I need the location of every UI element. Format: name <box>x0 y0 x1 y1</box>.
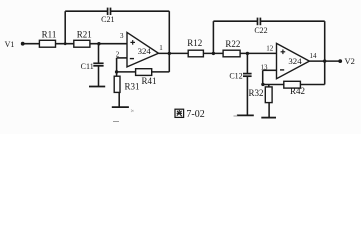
svg-text:R21: R21 <box>77 30 92 40</box>
wire C22 top right segment <box>261 20 325 22</box>
node junction R12-R22-C22 <box>212 52 215 55</box>
wire output2 vertical C22-R42 <box>324 21 326 84</box>
wire C12 lower leg <box>246 76 248 115</box>
svg-text:1: 1 <box>159 44 163 52</box>
wire C21 top left segment <box>65 10 107 12</box>
wire op2 output <box>309 60 340 62</box>
svg-text:C21: C21 <box>101 15 114 24</box>
svg-text:R12: R12 <box>187 38 202 48</box>
wire C22 left leg <box>212 21 214 53</box>
node junction R32 top <box>261 83 264 86</box>
resistor R31 <box>114 76 120 92</box>
capacitor C11 plates <box>93 63 103 66</box>
wire op1 output <box>159 52 189 54</box>
svg-text:12: 12 <box>266 45 274 53</box>
op-amp U2 minus sign <box>280 69 284 71</box>
svg-text:R32: R32 <box>248 88 263 98</box>
wire C22 top left segment <box>213 20 257 22</box>
svg-text:13: 13 <box>261 63 269 71</box>
wire R32 top stub <box>268 85 270 87</box>
op-amp U1 minus sign <box>130 58 134 60</box>
wire C11 upper leg <box>98 44 100 63</box>
faint scan artifact left of caption <box>131 110 134 113</box>
op-amp U2 plus sign <box>281 50 286 55</box>
capacitor C21 plates <box>108 8 111 15</box>
resistor R11 <box>39 40 55 47</box>
faint scan artifact dash below R31 ground <box>113 121 119 123</box>
wire pin13 vertical <box>262 70 264 84</box>
node junction output1 <box>168 52 171 55</box>
op-amp U1 triangle <box>127 32 159 67</box>
wire R32 bottom stub <box>268 103 270 118</box>
capacitor C12 plates <box>243 74 252 77</box>
svg-text:C22: C22 <box>254 26 267 35</box>
op-amp U2 triangle <box>277 43 310 78</box>
wire feedback2 to R42 <box>263 84 284 86</box>
node junction R22-C12-pin12 <box>246 52 249 55</box>
svg-text:2: 2 <box>116 51 120 59</box>
resistor R12 <box>188 50 203 57</box>
ground below C12 <box>237 114 254 116</box>
faint scan artifact dash right of caption <box>234 115 238 117</box>
node junction pin2-R31-R41 <box>115 70 118 73</box>
wire pin13 stub <box>263 69 277 71</box>
svg-text:3: 3 <box>120 32 124 40</box>
svg-text:R22: R22 <box>225 39 240 49</box>
svg-text:324: 324 <box>138 46 152 56</box>
wire R12 to R22 <box>203 52 223 54</box>
op-amp U1 plus sign <box>130 40 135 45</box>
wire R31 bottom stub <box>118 92 120 107</box>
wire C21 top right segment <box>111 10 170 12</box>
ground below R31 <box>112 106 129 108</box>
svg-text:14: 14 <box>310 52 318 60</box>
wire C21 left leg <box>64 11 66 44</box>
node V1 input terminal <box>21 42 25 46</box>
resistor R22 <box>223 50 240 57</box>
wire V1 to pin3 main line stage1 <box>23 43 127 45</box>
wire output1 vertical C21-R41 <box>168 11 170 72</box>
wire pin2 stub <box>117 57 127 59</box>
ground below C11 <box>89 86 105 88</box>
svg-text:324: 324 <box>288 56 302 66</box>
node V2 output terminal <box>338 59 342 63</box>
resistor R41 <box>136 69 152 76</box>
ground below R32 <box>261 117 276 119</box>
svg-text:R11: R11 <box>42 30 57 40</box>
wire R22 to pin12 <box>240 52 276 54</box>
wire R42 to output vertical <box>300 84 324 86</box>
resistor R21 <box>74 40 90 47</box>
node junction R11-R21-C21 <box>64 42 67 45</box>
svg-text:R42: R42 <box>290 86 305 96</box>
svg-text:V1: V1 <box>5 40 15 49</box>
wire junction to R41 <box>117 71 136 73</box>
svg-text:C11: C11 <box>81 62 94 71</box>
wire C11 lower leg <box>98 66 100 87</box>
resistor R42 <box>284 81 301 88</box>
capacitor C22 plates <box>258 18 261 26</box>
resistor R32 <box>265 87 272 103</box>
svg-text:V2: V2 <box>345 56 355 66</box>
svg-text:R31: R31 <box>125 81 140 91</box>
node junction output2 <box>323 59 326 62</box>
caption glyph tu (figure) <box>175 109 184 117</box>
svg-text:7-02: 7-02 <box>186 109 204 120</box>
svg-text:C12: C12 <box>229 72 242 81</box>
node junction R21-C11-pin3 <box>97 42 100 45</box>
wire C12 upper leg <box>246 53 248 73</box>
wire pin2 vertical <box>116 58 118 72</box>
svg-text:R41: R41 <box>141 76 156 86</box>
wire R41 to output vertical <box>152 71 170 73</box>
wire R31 top stub <box>116 72 118 76</box>
